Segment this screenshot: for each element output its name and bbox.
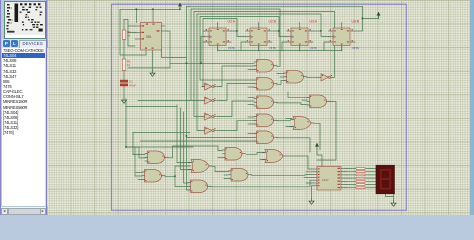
wire C1 out to inverter D1	[307, 76, 319, 78]
wire clock from 555	[167, 31, 254, 63]
AND gate B6	[229, 169, 252, 182]
wire from 555 area to bottom cluster	[141, 140, 255, 142]
wire A3 out to C2	[277, 103, 307, 105]
wire decoder gnd	[311, 186, 314, 199]
wire 555 top pins	[136, 9, 138, 22]
svg-text:LS47: LS47	[322, 178, 329, 182]
wire 555 gnd pin	[152, 50, 154, 71]
svg-text:U3:B: U3:B	[352, 20, 360, 24]
ground under C1	[122, 98, 127, 104]
wire D1 out riser	[332, 12, 335, 78]
inverter U4:A	[202, 83, 217, 90]
7-segment display	[376, 165, 395, 194]
resistor R2	[122, 30, 131, 40]
right window edge strip	[470, 0, 474, 215]
wire stubs gate inputs	[248, 69, 254, 71]
wire decoder outputs to resistors	[346, 169, 356, 188]
wire bus L0 long	[186, 6, 188, 136]
svg-text:555: 555	[146, 35, 152, 39]
capacitor C1 electrolytic	[120, 80, 136, 88]
inverter U4:D	[202, 127, 217, 134]
wire left feed down	[128, 39, 135, 46]
AND gate C1	[284, 71, 307, 84]
left object selector panel	[0, 0, 47, 215]
AND gate A1	[254, 60, 277, 73]
wire B4 out to decoder	[211, 180, 312, 187]
schematic grid canvas	[47, 0, 470, 215]
svg-text:1k: 1k	[127, 34, 131, 38]
svg-text:7476: 7476	[352, 46, 359, 50]
wire riser Q U3:A	[197, 14, 321, 131]
AND gate B4	[188, 180, 211, 193]
wire A1 out up	[191, 9, 280, 101]
wire E1 out down to decoder	[314, 123, 320, 150]
inverter U4:C	[202, 113, 217, 120]
resistor network RN1	[356, 168, 365, 189]
AND gate B1	[145, 151, 168, 164]
device list	[2, 48, 45, 206]
wire 555 power left	[120, 9, 146, 55]
overview window thumbnail	[4, 1, 46, 39]
AND gate A2	[254, 78, 277, 91]
555 timer U1	[135, 23, 167, 51]
flip-flop U2:B	[246, 20, 277, 52]
VCC arrow near decoder	[315, 143, 318, 149]
AND gate A3	[254, 96, 277, 109]
AND gate B5	[223, 148, 246, 161]
AND gate A4	[254, 114, 277, 127]
svg-text:U3:A: U3:A	[310, 20, 318, 24]
devices toolbar	[2, 39, 46, 48]
wire bottom cluster feeds	[177, 105, 191, 163]
wire B7 out to decoder	[287, 156, 313, 169]
wire R2 column	[123, 20, 125, 31]
svg-text:7476: 7476	[269, 46, 276, 50]
wire FF bottom rail	[218, 50, 342, 52]
ground under display	[391, 201, 396, 207]
svg-text:U2:B: U2:B	[269, 20, 277, 24]
inverter U4:B	[202, 97, 217, 104]
inverter U4:E	[319, 74, 334, 81]
wire inverter outputs to AND col1	[218, 66, 255, 87]
svg-text:7476: 7476	[310, 46, 317, 50]
OR gate B7	[263, 150, 287, 163]
VCC arrow left	[178, 3, 181, 9]
wire B2 out to B3 B4	[165, 176, 188, 186]
AND gate C2	[307, 95, 330, 108]
wire B5 out to B7	[247, 153, 265, 155]
wire riser Q U2:A	[203, 19, 237, 66]
wire A4 out to OR E1	[277, 120, 291, 122]
wire bus line inv3	[194, 12, 335, 117]
sheet border	[112, 4, 407, 210]
svg-text:7476: 7476	[228, 46, 235, 50]
wire top feedback Q3B	[187, 6, 363, 31]
svg-text:1k: 1k	[127, 63, 131, 67]
flip-flop U2:A	[205, 20, 236, 52]
wire A2 out to C1	[277, 81, 285, 85]
wire riser Q U2:B	[200, 17, 279, 81]
wire vcc to decoder top	[317, 150, 322, 167]
wire VCC top rail	[120, 8, 180, 10]
wire to VCC arrow right	[363, 13, 379, 19]
VCC arrow right	[377, 12, 380, 18]
ground under decoder	[309, 199, 314, 205]
AND gate B2	[142, 170, 165, 183]
wire inv1 feed	[202, 65, 203, 87]
wire Q to CLK couplings	[237, 31, 246, 37]
resistor R1	[122, 59, 131, 71]
ground under 555	[150, 71, 155, 77]
svg-text:47uF: 47uF	[129, 84, 136, 88]
OR gate E1	[291, 117, 315, 130]
horizontal scrollbar	[1, 207, 47, 215]
wire B1 out to B5	[169, 146, 223, 158]
decoder U5 74LS47	[312, 167, 346, 191]
wire display gnd	[386, 194, 394, 201]
flip-flop U3:B	[329, 20, 360, 52]
wire C2 out down	[317, 102, 336, 161]
wire resistors to display	[366, 169, 377, 188]
wire A5 out	[277, 138, 310, 152]
OR gate B3	[189, 160, 213, 173]
AND gate A5	[254, 131, 277, 144]
flip-flop U3:A	[287, 20, 318, 52]
svg-text:U2:A: U2:A	[228, 20, 236, 24]
wire B6 out to decoder	[252, 174, 313, 177]
wire B3 out to B6	[212, 166, 229, 171]
